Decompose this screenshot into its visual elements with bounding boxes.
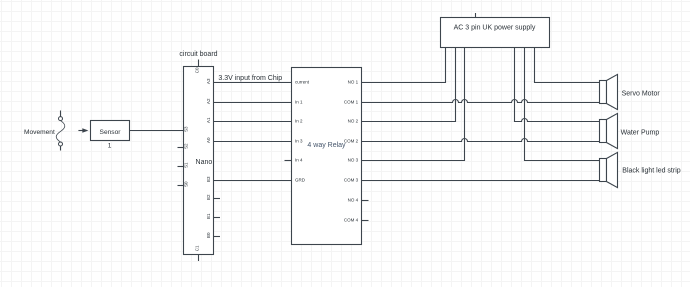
movement sensor symbol: [56, 111, 65, 151]
svg-text:S0: S0: [184, 181, 189, 187]
wire: relay COM 2 to water pump speaker (with hops): [362, 139, 600, 142]
svg-text:B2: B2: [206, 194, 211, 200]
svg-text:B1: B1: [206, 213, 211, 219]
wire: AC supply to water pump speaker (with hop): [515, 48, 600, 122]
svg-text:circuit board: circuit board: [179, 51, 217, 58]
circuit board (Nano) body: [184, 67, 214, 255]
wire: nano A3 to relay current (3.3V): [214, 82, 292, 84]
nano pin S0 stub: [178, 185, 184, 187]
svg-text:COM 4: COM 4: [344, 218, 359, 223]
svg-text:NO 2: NO 2: [348, 119, 359, 124]
relay U1 body: [292, 68, 362, 245]
servo motor speaker symbol: [600, 74, 618, 109]
svg-text:COM 3: COM 3: [344, 178, 359, 183]
svg-text:Water Pump: Water Pump: [621, 130, 660, 137]
svg-text:Servo Motor: Servo Motor: [622, 90, 661, 97]
svg-text:C0: C0: [195, 67, 200, 73]
wire: nano A1 to relay In 2: [214, 121, 292, 123]
AC supply top stub: [475, 13, 477, 18]
svg-text:In 2: In 2: [295, 119, 303, 124]
water pump speaker symbol: [600, 113, 618, 148]
wire: AC supply to servo speaker: [535, 48, 600, 83]
svg-text:Black light led strip: Black light led strip: [622, 168, 680, 175]
svg-text:COM 2: COM 2: [344, 139, 359, 144]
svg-text:current: current: [295, 80, 310, 85]
wire: relay NO 2 to AC supply: [362, 48, 456, 122]
svg-text:NO 1: NO 1: [348, 80, 359, 85]
svg-text:A3: A3: [206, 78, 211, 84]
nano pin B0 stub: [214, 236, 221, 238]
wire: arrow from movement symbol into sensor: [78, 128, 88, 133]
wire: relay COM 1 to servo speaker (with hops): [362, 100, 600, 103]
svg-text:C1: C1: [195, 245, 200, 251]
svg-text:B0: B0: [206, 232, 211, 238]
black light speaker symbol: [600, 152, 618, 187]
svg-text:In 3: In 3: [295, 139, 303, 144]
svg-text:A1: A1: [206, 117, 211, 123]
nano pin C0 (top stub): [198, 60, 200, 67]
svg-text:S1: S1: [184, 162, 189, 168]
wire: nano A0 to relay In 3: [214, 141, 292, 143]
AC 3 pin UK power supply box: [441, 18, 550, 48]
svg-text:S2: S2: [184, 143, 189, 149]
svg-text:1: 1: [108, 143, 112, 150]
svg-text:AC 3 pin UK power supply: AC 3 pin UK power supply: [454, 25, 536, 32]
svg-text:GRD: GRD: [295, 178, 306, 183]
svg-text:3.3V input from Chip: 3.3V input from Chip: [218, 75, 282, 82]
nano pin S2 stub: [178, 147, 184, 149]
svg-text:In 4: In 4: [295, 158, 303, 163]
svg-text:Sensor: Sensor: [100, 129, 122, 136]
wire: relay NO 1 to AC supply: [362, 48, 446, 83]
wire: nano A2 to relay In 1: [214, 102, 292, 104]
svg-text:NO 4: NO 4: [348, 198, 359, 203]
svg-text:4 way Relay: 4 way Relay: [307, 142, 346, 149]
svg-text:Movement: Movement: [24, 129, 55, 136]
svg-text:Nano: Nano: [196, 159, 213, 166]
nano pin C1 (bottom stub): [198, 255, 200, 262]
relay pin In 4 stub: [285, 160, 292, 162]
svg-text:A0: A0: [206, 137, 211, 143]
nano pin B2 stub: [214, 198, 221, 200]
wire: relay COM 3 to black light speaker: [362, 180, 600, 182]
sensor box: [91, 121, 130, 141]
svg-text:NO 3: NO 3: [348, 158, 359, 163]
svg-text:B3: B3: [206, 176, 211, 182]
wire: nano B3 to relay GRD: [214, 180, 292, 182]
nano pin S1 stub: [178, 166, 184, 168]
svg-text:COM 1: COM 1: [344, 100, 359, 105]
wire: AC supply to black light speaker: [525, 48, 600, 161]
svg-text:In 1: In 1: [295, 100, 303, 105]
nano pin B1 stub: [214, 217, 221, 219]
wire: sensor to nano pin S3: [130, 130, 184, 132]
relay pin NO 4 stub: [362, 200, 369, 202]
svg-text:S3: S3: [184, 126, 189, 132]
wire: relay NO 3 to AC supply: [362, 48, 465, 161]
relay pin COM 4 stub: [362, 220, 369, 222]
svg-text:A2: A2: [206, 98, 211, 104]
